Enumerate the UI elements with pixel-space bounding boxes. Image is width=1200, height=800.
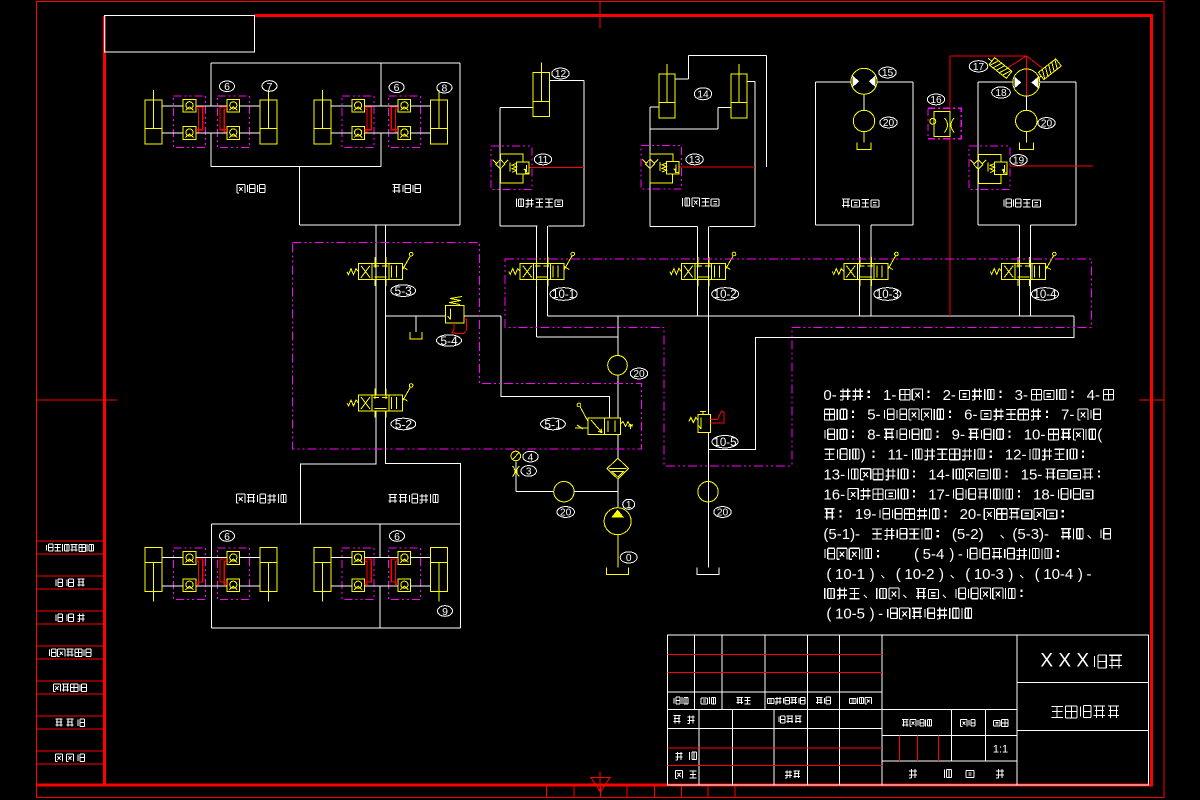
svg-text:13: 13 (689, 155, 701, 166)
svg-text:14: 14 (697, 89, 709, 100)
svg-text:(: ( (914, 546, 919, 563)
svg-text:): ) (1008, 566, 1013, 583)
svg-text:-: - (1086, 566, 1091, 583)
svg-text:20-: 20- (960, 506, 982, 523)
svg-text:19-: 19- (855, 506, 877, 523)
svg-text:4: 4 (528, 452, 534, 463)
svg-text:(5-3)-: (5-3)- (1012, 526, 1049, 543)
svg-text:10-2: 10-2 (714, 289, 737, 301)
svg-text:5-: 5- (867, 407, 880, 424)
svg-text:(5-1)-: (5-1)- (823, 526, 860, 543)
svg-text:(: ( (826, 606, 831, 623)
svg-text:): ) (939, 566, 944, 583)
svg-text:10-3: 10-3 (974, 566, 1004, 583)
svg-text:11: 11 (538, 155, 549, 166)
svg-text:): ) (949, 546, 954, 563)
svg-text:18-: 18- (1033, 486, 1055, 503)
svg-text:6: 6 (394, 82, 400, 94)
svg-text:5-1: 5-1 (544, 417, 562, 431)
svg-text:4-: 4- (1087, 387, 1100, 404)
svg-text:13-: 13- (823, 466, 845, 483)
svg-text:9: 9 (442, 606, 448, 618)
svg-text:1:1: 1:1 (993, 744, 1008, 756)
svg-text:10-4: 10-4 (1043, 566, 1073, 583)
svg-text:2-: 2- (943, 387, 956, 404)
svg-text:8-: 8- (867, 427, 880, 444)
svg-text:17-: 17- (928, 486, 950, 503)
svg-text:6: 6 (394, 531, 400, 543)
svg-text:): ) (861, 447, 866, 464)
svg-text:): ) (870, 566, 875, 583)
svg-text:-: - (958, 546, 963, 563)
svg-text:(: ( (1035, 566, 1040, 583)
svg-text:12-: 12- (1005, 447, 1027, 464)
svg-text:5-4: 5-4 (923, 546, 945, 563)
svg-text:11-: 11- (888, 447, 909, 464)
svg-text:0-: 0- (823, 387, 836, 404)
svg-text:(5-2): (5-2) (952, 526, 984, 543)
svg-text:): ) (870, 606, 875, 623)
svg-text:10-: 10- (1024, 427, 1046, 444)
svg-text:(: ( (826, 566, 831, 583)
svg-text:7: 7 (267, 81, 273, 93)
svg-text:10-5: 10-5 (835, 606, 865, 623)
svg-text:5-2: 5-2 (395, 417, 413, 431)
svg-text:-: - (878, 606, 883, 623)
svg-text:X X X: X X X (1040, 651, 1089, 672)
svg-text:1: 1 (626, 500, 632, 511)
svg-text:3-: 3- (1015, 387, 1028, 404)
svg-text:20: 20 (633, 369, 645, 380)
svg-text:20: 20 (560, 508, 572, 519)
svg-text:1-: 1- (883, 387, 896, 404)
svg-text:20: 20 (717, 508, 729, 519)
svg-text:): ) (1078, 566, 1083, 583)
svg-text:6-: 6- (964, 407, 977, 424)
svg-text:8: 8 (441, 82, 447, 94)
svg-text:19: 19 (1013, 156, 1025, 167)
svg-text:15-: 15- (1021, 466, 1043, 483)
svg-text:18: 18 (995, 88, 1007, 99)
svg-text:17: 17 (973, 62, 985, 73)
svg-text:5-4: 5-4 (440, 334, 458, 348)
svg-text:14-: 14- (928, 466, 950, 483)
svg-text:20: 20 (883, 118, 895, 129)
svg-text:10-2: 10-2 (904, 566, 934, 583)
svg-text:(: ( (1097, 427, 1102, 444)
svg-text:6: 6 (224, 81, 230, 93)
svg-text:20: 20 (1041, 119, 1053, 130)
svg-text:0: 0 (626, 553, 632, 564)
svg-text:10-1: 10-1 (835, 566, 865, 583)
svg-text:10-1: 10-1 (552, 289, 575, 301)
svg-text:10-3: 10-3 (876, 289, 899, 301)
svg-text:16-: 16- (823, 486, 845, 503)
svg-text:15: 15 (882, 68, 894, 79)
svg-text:(: ( (965, 566, 970, 583)
svg-text:12: 12 (555, 69, 567, 80)
svg-text:3: 3 (526, 467, 532, 478)
svg-text:10-5: 10-5 (713, 437, 736, 449)
svg-text:5-3: 5-3 (395, 284, 413, 298)
svg-text:(: ( (896, 566, 901, 583)
svg-text:16: 16 (930, 95, 942, 106)
svg-text:10-4: 10-4 (1033, 289, 1057, 301)
svg-text:9-: 9- (952, 427, 965, 444)
svg-text:7-: 7- (1061, 407, 1074, 424)
svg-text:6: 6 (224, 531, 230, 543)
